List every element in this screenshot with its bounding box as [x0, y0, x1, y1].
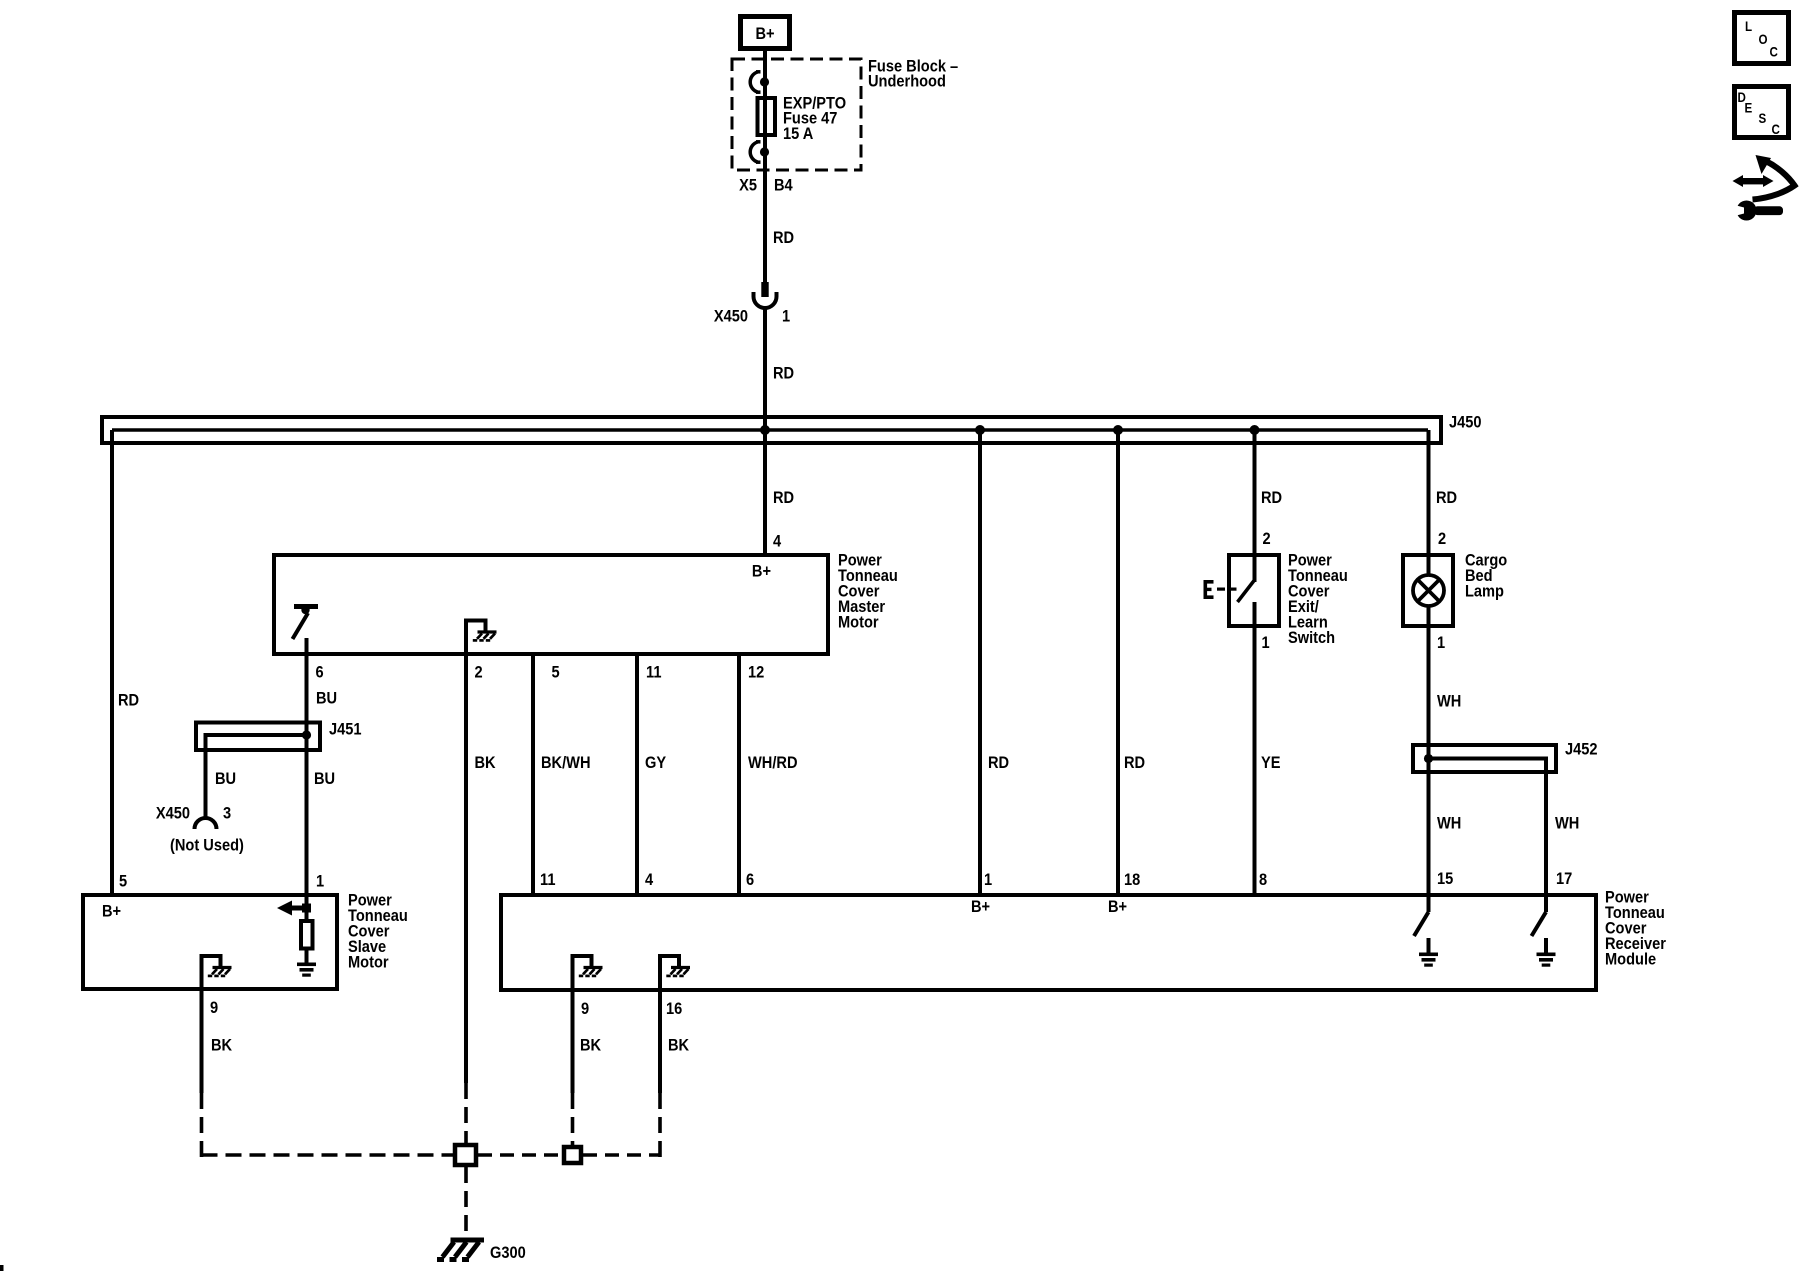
svg-text:RD: RD [118, 691, 139, 709]
master motor internal case ground hatch [473, 632, 497, 640]
power tonneau cover slave motor box [83, 895, 337, 989]
navigation icon: double-headed arrow [1733, 175, 1774, 187]
svg-text:(Not Used): (Not Used) [170, 836, 244, 854]
svg-text:15 A: 15 A [783, 125, 814, 143]
power tonneau cover master motor box [274, 555, 828, 654]
svg-text:Lamp: Lamp [1465, 582, 1504, 600]
svg-text:O: O [1759, 32, 1768, 47]
wire BU: master pin 6 through J451 to slave pin 1 [305, 656, 309, 893]
junction dot to receiver pin 18 [1113, 425, 1123, 435]
wire BK dashed: receiver pin 9 to splice [571, 1093, 575, 1147]
svg-text:Module: Module [1605, 950, 1656, 968]
wire BK: slave pin 9 (solid part) [200, 989, 204, 1093]
svg-text:1: 1 [984, 871, 992, 889]
wire WH: J452 to receiver pin 15 [1427, 743, 1431, 893]
svg-text:C: C [1770, 45, 1778, 60]
switch internal lower contact [1253, 602, 1257, 628]
svg-text:B4: B4 [774, 177, 793, 195]
svg-text:4: 4 [773, 532, 781, 550]
svg-text:6: 6 [746, 871, 754, 889]
svg-text:B+: B+ [102, 902, 121, 920]
wire RD: J450 to master motor pin 4 [763, 430, 767, 553]
receiver internal earth stem pin 15 [1427, 938, 1431, 953]
stray mark bottom left [0, 1265, 4, 1271]
DESC navigation box [1735, 87, 1789, 138]
svg-text:RD: RD [988, 754, 1009, 772]
svg-text:BU: BU [316, 689, 337, 707]
svg-text:BU: BU [314, 770, 335, 788]
svg-text:8: 8 [1259, 871, 1267, 889]
junction dot to receiver pin 1 [975, 425, 985, 435]
svg-text:YE: YE [1261, 754, 1280, 772]
svg-text:J451: J451 [329, 720, 362, 738]
svg-text:B+: B+ [752, 562, 771, 580]
navigation icon: wrench [1737, 201, 1784, 221]
svg-text:17: 17 [1556, 870, 1572, 888]
wire RD: J450 right end to cargo bed lamp pin 2 [1427, 430, 1431, 553]
svg-text:RD: RD [1124, 754, 1145, 772]
svg-text:G300: G300 [490, 1244, 526, 1262]
svg-text:1: 1 [1437, 634, 1445, 652]
svg-text:18: 18 [1124, 871, 1140, 889]
svg-text:GY: GY [645, 754, 667, 772]
svg-text:9: 9 [210, 999, 218, 1017]
ground bus dashed: left segment [202, 1153, 454, 1157]
slave motor internal wire resistor to earth [305, 948, 309, 963]
receiver internal earth ground pin 17 [1537, 953, 1556, 967]
connector X450 pin 1 (female cup) [754, 292, 777, 308]
svg-text:BK: BK [668, 1036, 690, 1054]
wire BK/WH: master pin 5 to receiver pin 11 [531, 656, 535, 893]
wire BK: master pin 2 down to splice (solid part) [464, 656, 468, 1083]
svg-text:J450: J450 [1449, 413, 1482, 431]
junction dot main feed [760, 425, 770, 435]
wire RD: B+ box to fuse 47 (vertical main feed) [763, 51, 767, 282]
master motor internal switch blade [293, 613, 309, 639]
wire BK: receiver pin 16 (solid part) [658, 990, 662, 1093]
splice S2 [564, 1147, 581, 1163]
wire BK dashed: slave pin 9 to ground bus [200, 1093, 204, 1157]
receiver internal switch stub pin 17 [1544, 893, 1548, 912]
svg-text:J452: J452 [1565, 740, 1598, 758]
J450 internal bus wire [112, 428, 1428, 432]
receiver internal earth stem pin 17 [1544, 938, 1548, 953]
svg-text:WH/RD: WH/RD [748, 754, 798, 772]
ground bus dashed: middle segment [478, 1153, 562, 1157]
svg-text:C: C [1772, 122, 1780, 137]
svg-text:2: 2 [475, 663, 483, 681]
svg-text:11: 11 [540, 871, 556, 889]
svg-text:3: 3 [223, 804, 231, 822]
svg-text:RD: RD [773, 489, 794, 507]
svg-text:5: 5 [552, 663, 560, 681]
power tonneau cover receiver module box [501, 895, 1596, 990]
wire RD: J450 to receiver pin 1 [978, 430, 982, 893]
splice S1 [455, 1145, 476, 1165]
svg-text:Switch: Switch [1288, 629, 1335, 647]
receiver internal case ground bracket (pin 16) [660, 956, 679, 990]
wire RD: J450 to exit/learn switch pin 2 [1253, 430, 1257, 553]
slave motor internal case ground bracket (pin 9) [202, 956, 221, 989]
connector J451 outline [196, 723, 320, 751]
slave motor internal earth ground [297, 963, 316, 977]
svg-text:L: L [1745, 19, 1752, 34]
lamp internal feed stub [1427, 553, 1431, 575]
junction dot to exit/learn switch [1250, 425, 1260, 435]
J451 internal branch wire [206, 735, 307, 817]
slave motor internal feed stub pin 1 [305, 893, 309, 919]
svg-text:12: 12 [748, 663, 764, 681]
B+ battery feed box [741, 17, 790, 49]
J452 junction dot [1424, 754, 1433, 763]
master motor internal switch pivot dot [301, 606, 309, 614]
receiver internal switch blade pin 15 [1414, 912, 1429, 936]
wire RD: J450 to slave motor pin 5 (left drop) [110, 430, 114, 893]
svg-text:E: E [1745, 101, 1753, 116]
svg-text:B+: B+ [755, 25, 774, 43]
wire WH: J452 branch to receiver pin 17 [1544, 772, 1548, 893]
connector X450 pin 1 (male terminal) [761, 282, 768, 297]
lamp internal lower stub [1427, 606, 1431, 628]
receiver internal switch stub pin 15 [1427, 893, 1431, 912]
svg-text:B+: B+ [1108, 898, 1127, 916]
svg-text:BK/WH: BK/WH [541, 754, 591, 772]
wire BK dashed: splice S1 to G300 [464, 1167, 468, 1234]
svg-text:6: 6 [316, 663, 324, 681]
wire BK dashed: master pin 2 to splice S1 [464, 1083, 468, 1145]
svg-text:X450: X450 [156, 804, 190, 822]
switch actuator letter E [1204, 580, 1214, 599]
power tonneau cover exit/learn switch box [1229, 555, 1279, 626]
svg-text:Motor: Motor [348, 953, 389, 971]
navigation icon: curved outline arrow [1753, 162, 1795, 200]
wire RD: J450 to receiver pin 18 [1116, 430, 1120, 893]
master motor internal case ground bracket (pin 2) [466, 621, 486, 657]
slave motor internal resistor [301, 921, 313, 949]
svg-text:Motor: Motor [838, 613, 879, 631]
receiver internal earth ground pin 15 [1419, 953, 1438, 967]
fuse block underhood dashed outline [732, 59, 861, 170]
connector X450 pin 3 stub terminal (dome) [195, 818, 217, 829]
receiver internal case ground hatch (pin 16) [666, 968, 690, 976]
svg-text:WH: WH [1437, 692, 1461, 710]
lamp bulb circle [1413, 575, 1444, 606]
svg-text:2: 2 [1438, 530, 1446, 548]
fuse block top terminal (hook and junction dot) [750, 72, 760, 92]
svg-text:9: 9 [581, 1000, 589, 1018]
svg-text:1: 1 [782, 307, 790, 325]
J451 junction dot [302, 730, 311, 739]
fuse EXP/PTO Fuse 47 15 A body [758, 98, 776, 135]
svg-text:S: S [1759, 111, 1767, 126]
LOC navigation box [1735, 13, 1789, 64]
wire WH: lamp pin 1 to J452 [1427, 628, 1431, 743]
svg-text:RD: RD [1436, 489, 1457, 507]
wire YE: switch pin 1 to receiver pin 8 [1253, 628, 1257, 893]
svg-text:WH: WH [1555, 814, 1579, 832]
master motor internal switch T-bar [294, 604, 318, 609]
switch internal blade [1238, 580, 1255, 602]
ground G300 symbol [437, 1240, 484, 1260]
lamp bulb cross [1418, 580, 1440, 602]
master motor internal contact stub to pin 6 [305, 638, 309, 656]
svg-text:4: 4 [645, 871, 653, 889]
wire GY: master pin 11 to receiver pin 4 [635, 656, 639, 893]
svg-text:RD: RD [773, 364, 794, 382]
svg-text:BU: BU [215, 770, 236, 788]
slave motor internal case ground hatch [208, 968, 232, 976]
svg-text:BK: BK [475, 754, 497, 772]
receiver internal case ground bracket (pin 9) [573, 956, 592, 990]
J450 splice pack outline [102, 417, 1441, 443]
svg-text:1: 1 [1262, 634, 1270, 652]
switch internal feed stub [1253, 553, 1257, 582]
receiver internal switch blade pin 17 [1532, 912, 1547, 936]
svg-text:RD: RD [773, 229, 794, 247]
svg-text:BK: BK [211, 1036, 233, 1054]
fuse block bottom terminal (hook and junction dot) [750, 142, 760, 162]
wire BK dashed: receiver pin 16 to ground bus [658, 1093, 662, 1157]
slave motor internal junction blob [302, 904, 311, 913]
svg-text:1: 1 [316, 873, 324, 891]
connector J452 outline [1413, 745, 1556, 772]
receiver internal case ground hatch (pin 9) [579, 968, 603, 976]
svg-text:B+: B+ [971, 898, 990, 916]
slave motor internal direction arrow shaft [290, 906, 306, 911]
svg-text:WH: WH [1437, 814, 1461, 832]
cargo bed lamp box [1403, 555, 1453, 626]
wire BK: receiver pin 9 (solid part) [571, 990, 575, 1093]
J452 internal branch wire [1429, 759, 1547, 775]
svg-text:BK: BK [580, 1036, 602, 1054]
ground bus dashed: right segment [583, 1153, 660, 1157]
svg-text:15: 15 [1437, 870, 1453, 888]
svg-text:RD: RD [1261, 489, 1282, 507]
svg-text:X450: X450 [714, 307, 748, 325]
svg-text:2: 2 [1263, 530, 1271, 548]
svg-text:X5: X5 [739, 177, 757, 195]
slave motor internal direction arrow head [277, 901, 292, 916]
switch actuator dashed link [1217, 588, 1225, 591]
svg-text:11: 11 [646, 663, 662, 681]
svg-text:5: 5 [119, 873, 127, 891]
svg-text:16: 16 [666, 1000, 682, 1018]
svg-text:Underhood: Underhood [868, 73, 946, 91]
wire RD: X450 to J450 splice pack [763, 308, 767, 430]
wire WH/RD: master pin 12 to receiver pin 6 [737, 656, 741, 893]
